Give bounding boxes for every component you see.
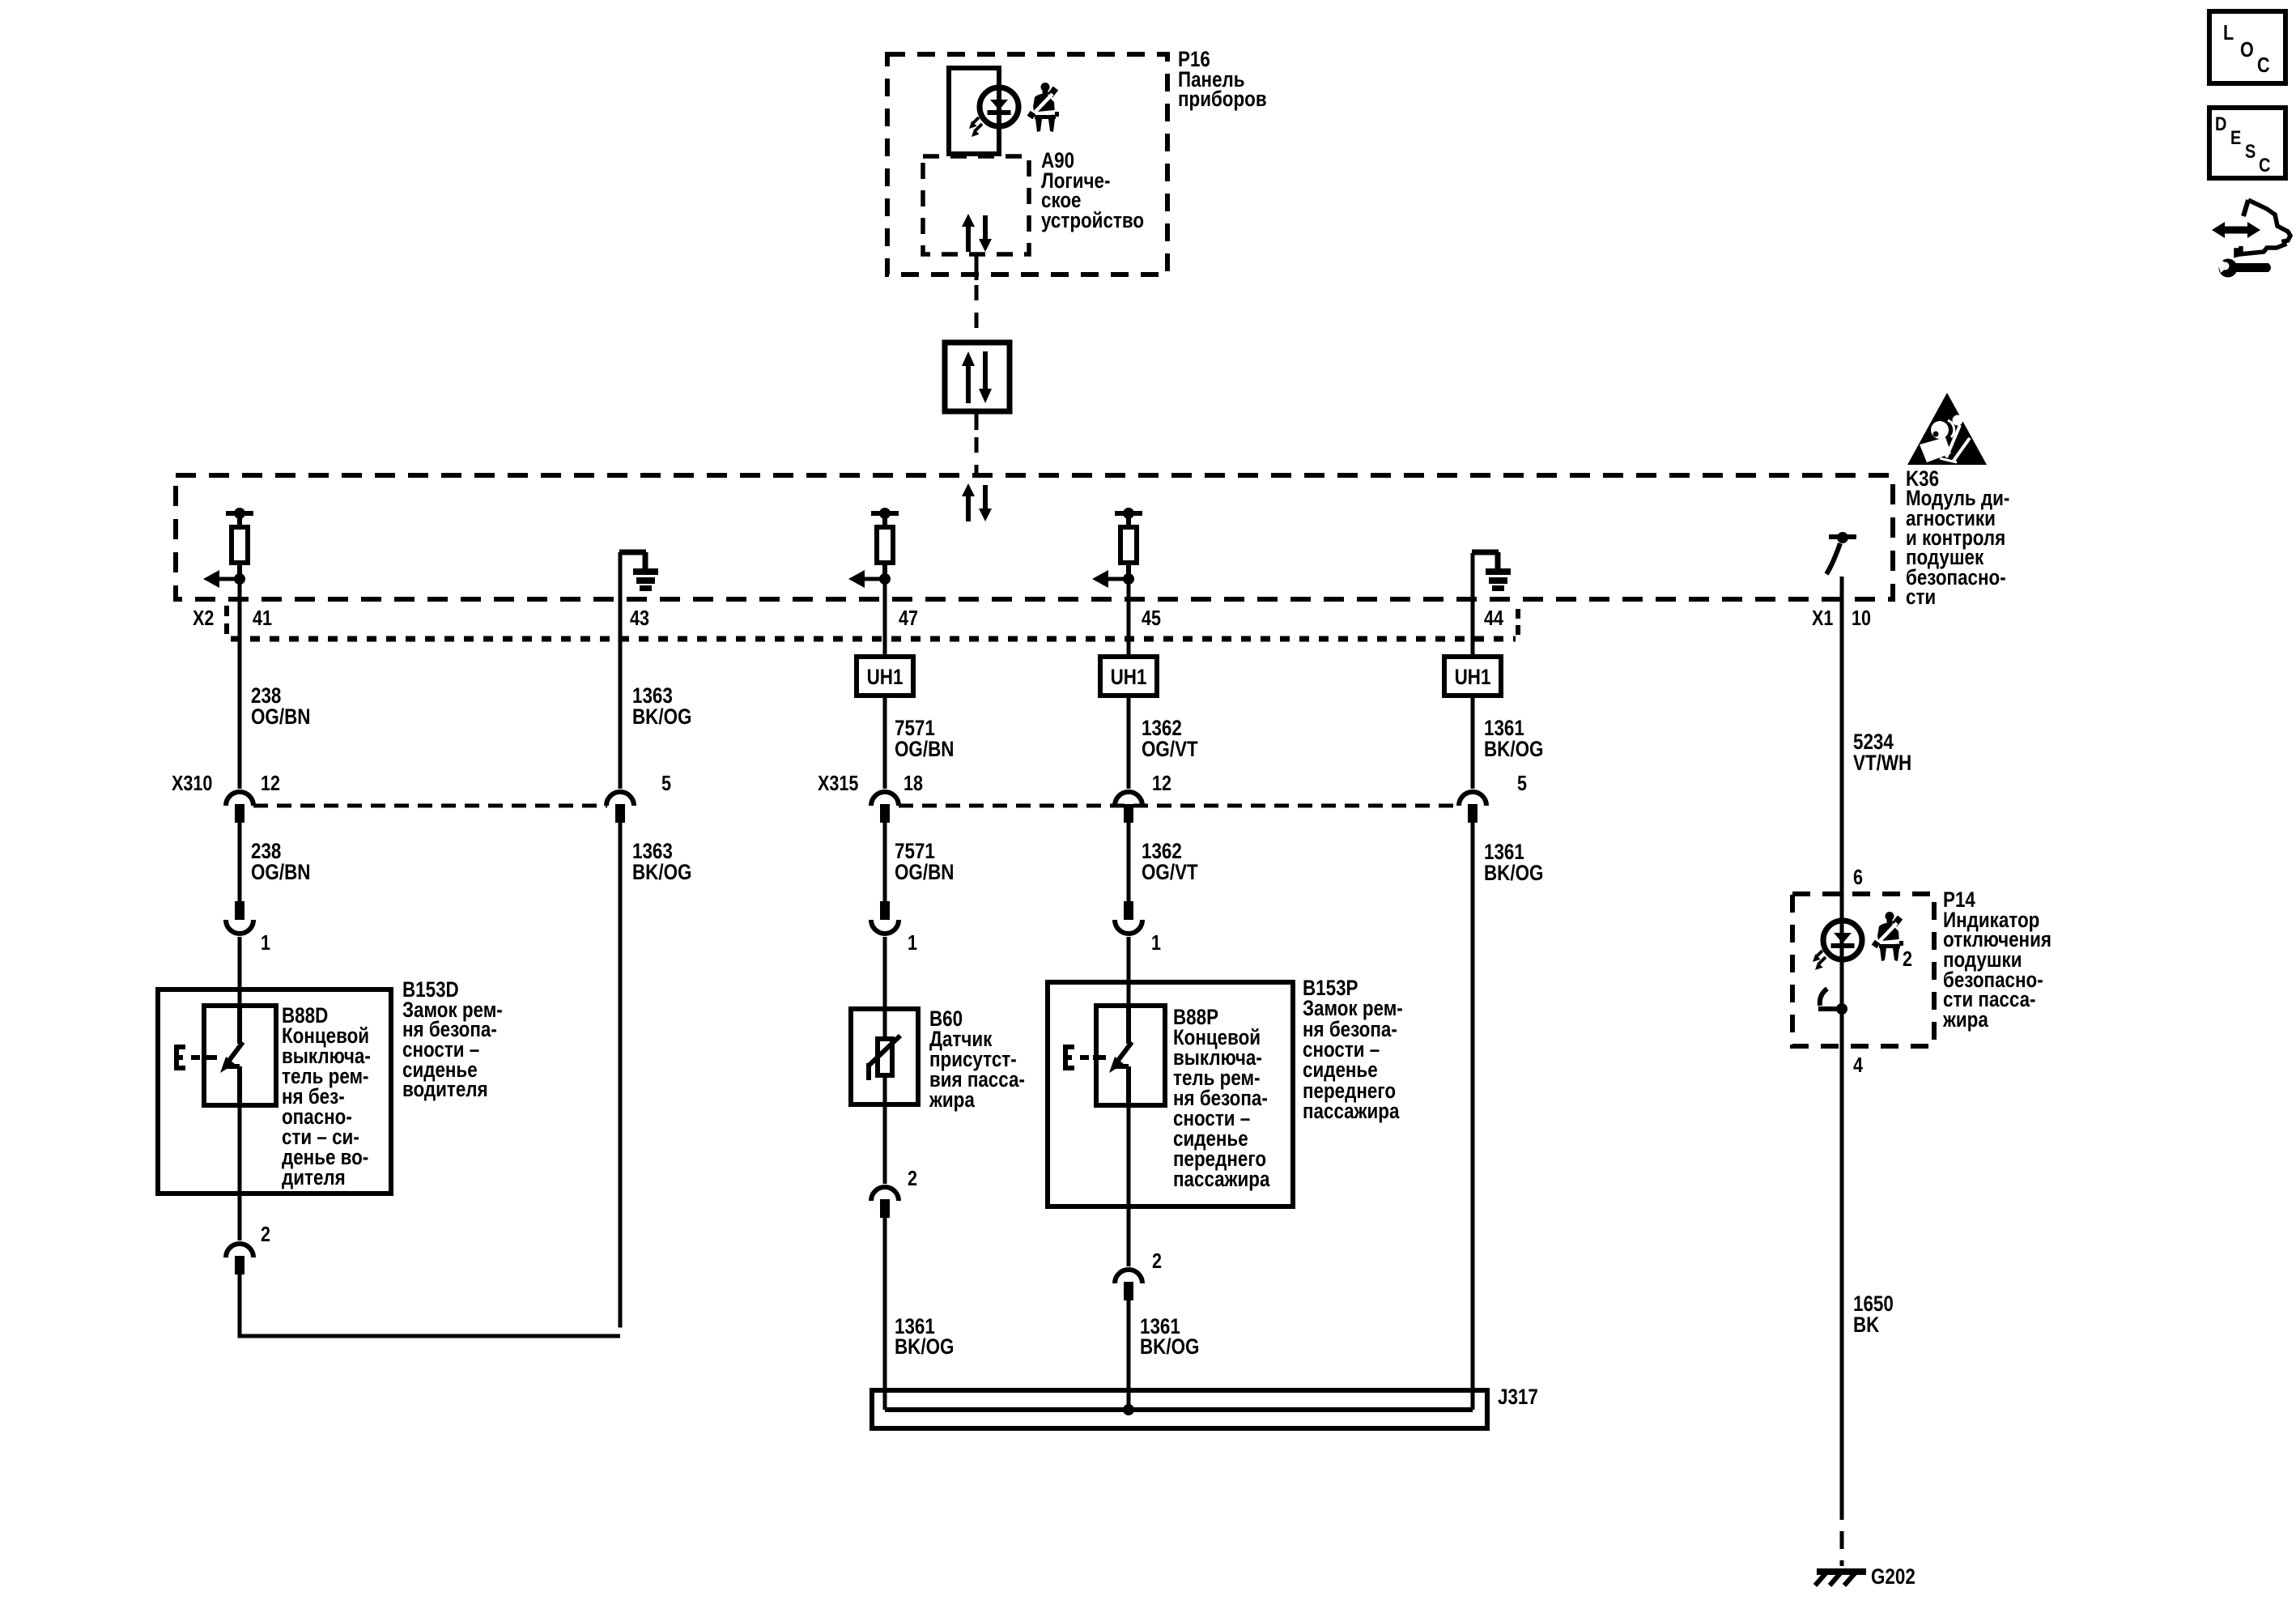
svg-text:BK/OG: BK/OG	[632, 861, 691, 884]
svg-text:OG/BN: OG/BN	[895, 861, 954, 884]
svg-text:X2: X2	[193, 606, 214, 630]
pin 1 (B60)	[908, 931, 917, 955]
svg-text:OG/BN: OG/BN	[895, 738, 954, 761]
svg-text:жира: жира	[1942, 1008, 1988, 1032]
LOC reference box	[2209, 11, 2285, 83]
box P16 instrument panel (dashed)	[887, 54, 1167, 274]
box B153D driver seat belt buckle	[158, 989, 391, 1194]
svg-text:2: 2	[1903, 947, 1912, 971]
splice sleeve UH1 (wire 7571)	[857, 657, 913, 696]
pin 12 (X310)	[261, 772, 280, 795]
box B88D switch	[204, 1006, 276, 1105]
label wire 238 OG/BN lower	[251, 840, 310, 884]
sensor element B60	[869, 1011, 900, 1104]
wire 1361 BK/OG lower (X315 pin5 to J317)	[1471, 823, 1475, 1410]
wire 5234 VT/WH (pin 10 to P14)	[1840, 577, 1844, 1502]
wire 1361 BK/OG upper (pin 44 to X315)	[1471, 553, 1475, 789]
label P16	[1178, 48, 1267, 111]
LED indicator lamp (P16)	[969, 87, 1018, 137]
svg-text:X315: X315	[818, 772, 858, 795]
box B60 passenger presence sensor	[851, 1009, 918, 1104]
splice pack J317	[872, 1390, 1487, 1428]
driver output pin 45	[1092, 508, 1142, 588]
wire 238 OG/BN upper (pin 41 to X310)	[238, 577, 242, 789]
svg-text:устройство: устройство	[1041, 209, 1144, 232]
seat belt icon (P16)	[1030, 83, 1059, 132]
ground symbol pin 43 (internal)	[619, 552, 658, 591]
label P14	[1942, 888, 2052, 1032]
svg-text:4: 4	[1853, 1053, 1864, 1077]
svg-text:2: 2	[261, 1223, 270, 1246]
svg-text:OG/VT: OG/VT	[1142, 738, 1198, 761]
svg-text:10: 10	[1852, 606, 1871, 630]
connector X310 dashed line	[253, 804, 607, 808]
svg-text:E: E	[2230, 126, 2241, 148]
label X310	[172, 772, 212, 795]
junction dot J317	[1123, 1404, 1134, 1415]
wire 1362 OG/VT lower	[1127, 823, 1131, 901]
DESC reference box	[2209, 108, 2285, 178]
label wire 1361 BK/OG upper	[1484, 717, 1543, 761]
label wire 1363 BK/OG lower	[632, 840, 691, 884]
label X315	[818, 772, 858, 795]
driver output pin 47	[848, 508, 899, 588]
wire 1362 OG/VT upper (pin 45 to X315)	[1127, 577, 1131, 789]
splice sleeve UH1 (wire 1362)	[1100, 657, 1157, 696]
wire 7571 OG/BN upper (pin 47 to X315)	[883, 577, 887, 789]
pin 43	[630, 606, 649, 630]
switch driver pin 10 (internal K36)	[1826, 532, 1856, 574]
label B88D	[282, 1004, 371, 1189]
wire B88D to pin 2	[238, 1105, 242, 1240]
wire 1363 BK/OG lower (X310 to corner)	[619, 823, 623, 1328]
connector X315 pin 18	[871, 792, 899, 823]
svg-text:BK/OG: BK/OG	[1484, 862, 1543, 885]
serial data wire below A90	[975, 254, 979, 343]
pin 5 (X310)	[661, 772, 671, 795]
serial data symbol box	[945, 343, 1010, 411]
svg-text:D: D	[2215, 113, 2226, 134]
connector pin 1 (B60)	[871, 901, 899, 934]
seat belt icon (P14)	[1874, 912, 1903, 961]
svg-text:1363: 1363	[632, 840, 673, 863]
svg-text:O: O	[2240, 38, 2254, 62]
svg-text:L: L	[2223, 21, 2234, 45]
svg-text:1362: 1362	[1142, 717, 1182, 740]
warning triangle SRS	[1907, 393, 1987, 465]
svg-text:1362: 1362	[1142, 840, 1182, 863]
svg-text:G202: G202	[1871, 1565, 1915, 1589]
driver output pin 41	[203, 508, 253, 588]
svg-text:BK/OG: BK/OG	[1140, 1335, 1199, 1359]
svg-text:1361: 1361	[1484, 840, 1524, 864]
wire B88P to pin 2	[1127, 1105, 1131, 1266]
svg-text:1363: 1363	[632, 684, 673, 708]
connector X310 pin 5	[606, 792, 634, 823]
svg-text:2: 2	[1152, 1249, 1162, 1273]
pin 6 (P14)	[1853, 866, 1863, 889]
pin 1 (B88P)	[1151, 931, 1161, 955]
svg-text:BK/OG: BK/OG	[1484, 738, 1543, 761]
svg-text:сиденье: сиденье	[1303, 1058, 1378, 1082]
connector X315 pin 5	[1459, 792, 1486, 823]
wire into B88P	[1127, 937, 1131, 1008]
label K36	[1906, 467, 2009, 609]
svg-text:OG/BN: OG/BN	[251, 861, 310, 884]
svg-text:6: 6	[1853, 866, 1863, 889]
svg-text:OG/VT: OG/VT	[1142, 861, 1198, 884]
svg-text:7571: 7571	[895, 717, 935, 740]
svg-text:44: 44	[1484, 606, 1504, 630]
box B88P switch	[1096, 1006, 1165, 1105]
pin 2 (B60)	[908, 1167, 917, 1190]
svg-text:43: 43	[630, 606, 649, 630]
label X2	[193, 606, 214, 630]
svg-text:1361: 1361	[1484, 717, 1524, 740]
label A90	[1041, 149, 1144, 232]
label B60	[929, 1007, 1025, 1112]
svg-text:Замок рем-: Замок рем-	[1303, 997, 1403, 1020]
connector pin 1 (B88P)	[1115, 901, 1142, 934]
pin 2 (B88D)	[261, 1223, 270, 1246]
connector pin 2 (B88P)	[1115, 1270, 1142, 1300]
connector X310 pin 12	[226, 792, 253, 823]
svg-text:S: S	[2245, 140, 2256, 162]
label wire 1650 BK	[1853, 1292, 1894, 1337]
wire 238 OG/BN lower	[238, 823, 242, 901]
svg-text:пассажира: пассажира	[1303, 1100, 1400, 1123]
svg-text:OG/BN: OG/BN	[251, 705, 310, 729]
svg-text:X1: X1	[1812, 606, 1833, 630]
svg-text:45: 45	[1142, 606, 1161, 630]
wire into B60	[883, 937, 887, 1011]
ground G202	[1815, 1572, 1866, 1585]
svg-text:X310: X310	[172, 772, 212, 795]
pin 47	[899, 606, 918, 630]
pin 45	[1142, 606, 1161, 630]
svg-text:жира: жира	[929, 1088, 975, 1112]
svg-text:дителя: дителя	[282, 1166, 346, 1189]
svg-text:водителя: водителя	[402, 1078, 488, 1101]
subscript 2 (P14 icon)	[1903, 947, 1912, 971]
wire 7571 OG/BN lower	[883, 823, 887, 901]
box A90 logic device (dashed)	[923, 156, 1029, 254]
svg-text:VT/WH: VT/WH	[1853, 751, 1911, 775]
svg-text:пассажира: пассажира	[1173, 1168, 1270, 1191]
pin 41	[253, 606, 272, 630]
svg-text:5: 5	[661, 772, 671, 795]
connector X2 right cap	[1516, 609, 1520, 640]
pin 2 (B88P)	[1152, 1249, 1162, 1273]
svg-text:BK/OG: BK/OG	[895, 1335, 954, 1359]
connector pin 1 (B88D)	[226, 901, 253, 934]
label wire 1362 OG/VT upper	[1142, 717, 1198, 761]
lamp driver rectangle in P16	[949, 68, 999, 154]
pin 1 (B88D)	[261, 931, 270, 955]
label J317	[1498, 1385, 1538, 1409]
connector X2 separator	[224, 606, 229, 635]
LED indicator (P14)	[1813, 921, 1862, 970]
ground symbol pin 44 (internal)	[1472, 552, 1511, 591]
label wire 238 OG/BN upper	[251, 684, 310, 729]
pin 4 (P14)	[1853, 1053, 1864, 1077]
label wire 1362 OG/VT lower	[1142, 840, 1198, 884]
box P14 passenger airbag disable indicator (dashed)	[1792, 894, 1934, 1046]
svg-text:C: C	[2259, 154, 2270, 176]
svg-text:12: 12	[1152, 772, 1171, 795]
wire 1361 BK/OG (B88P to J317)	[1127, 1300, 1131, 1410]
pin 18 (X315)	[904, 772, 923, 795]
svg-text:1: 1	[1151, 931, 1161, 955]
switch B88D (seat belt switch)	[175, 1006, 243, 1108]
wire into B88D	[238, 937, 242, 1008]
connector pin 2 (B88D)	[226, 1244, 253, 1274]
serial data arrows inside K36	[962, 483, 992, 521]
label wire 1363 BK/OG upper	[632, 684, 691, 729]
box K36 airbag diagnostic module (dashed)	[176, 475, 1893, 599]
splice sleeve UH1 (wire 1361)	[1444, 657, 1501, 696]
connector X315 pin 12	[1115, 792, 1142, 823]
wire 1361 BK/OG (B60 to J317)	[883, 1218, 887, 1410]
svg-text:C: C	[2257, 53, 2270, 77]
switch B88P (seat belt switch)	[1064, 1006, 1132, 1108]
pin 12 (X315)	[1152, 772, 1171, 795]
connector X2 row dotted line	[231, 636, 1516, 642]
svg-text:12: 12	[261, 772, 280, 795]
serial data arrows in A90	[962, 214, 992, 252]
svg-text:приборов: приборов	[1178, 87, 1267, 111]
svg-text:41: 41	[253, 606, 272, 630]
wire 1363 BK/OG upper (pin 43 to X310)	[619, 552, 623, 789]
svg-text:5: 5	[1517, 772, 1527, 795]
label wire 7571 OG/BN lower	[895, 840, 954, 884]
svg-text:1: 1	[261, 931, 270, 955]
svg-text:7571: 7571	[895, 840, 935, 863]
label B88P	[1173, 1006, 1270, 1191]
connector pin 2 (B60)	[871, 1187, 899, 1218]
svg-text:1: 1	[908, 931, 917, 955]
pin 44	[1484, 606, 1504, 630]
label wire 1361 BK/OG (B60 leg)	[895, 1315, 954, 1359]
label wire 1361 BK/OG (B88P leg)	[1140, 1315, 1199, 1359]
svg-text:238: 238	[251, 840, 282, 863]
label wire 1361 BK/OG lower	[1484, 840, 1543, 885]
svg-text:1650: 1650	[1853, 1292, 1894, 1316]
svg-text:5234: 5234	[1853, 730, 1894, 754]
pin 10	[1852, 606, 1871, 630]
svg-text:238: 238	[251, 684, 282, 708]
svg-text:2: 2	[908, 1167, 917, 1190]
service icon (hand with arrow and wrench)	[2212, 200, 2290, 278]
label wire 5234 VT/WH	[1853, 730, 1911, 775]
label wire 7571 OG/BN upper	[895, 717, 954, 761]
connector X315 dashed line	[899, 804, 1460, 808]
svg-text:18: 18	[904, 772, 923, 795]
pin 5 (X315)	[1517, 772, 1527, 795]
svg-text:47: 47	[899, 606, 918, 630]
svg-text:сти: сти	[1906, 585, 1936, 609]
label B153P	[1303, 977, 1403, 1123]
label X1	[1812, 606, 1833, 630]
box B153P front passenger seat belt buckle	[1048, 982, 1293, 1206]
svg-text:BK: BK	[1853, 1313, 1879, 1337]
wire B60 to pin 2	[883, 1104, 887, 1184]
label G202	[1871, 1565, 1915, 1589]
svg-text:BK/OG: BK/OG	[632, 705, 691, 729]
wire 1650 BK dashed continuation	[1840, 1502, 1844, 1566]
label B153D	[402, 978, 503, 1101]
wire through indicator	[997, 88, 1001, 156]
serial data wire below symbol box	[975, 411, 979, 475]
svg-text:J317: J317	[1498, 1385, 1538, 1409]
wire return loop to X310 pin 5	[240, 1274, 620, 1336]
switch driver in P14	[1818, 989, 1847, 1015]
